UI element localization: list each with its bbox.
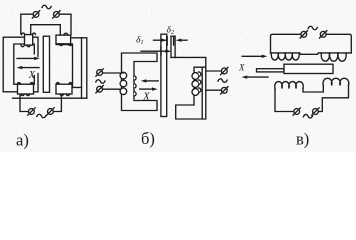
coil W7 top-left winding [271, 53, 352, 60]
arrow displacement right [17, 57, 35, 59]
arrow displacement left (fig v) [247, 76, 268, 78]
svg-text:X: X [28, 70, 36, 81]
wire bottom-left W9 to terminal [275, 89, 293, 112]
coil W4 loops [56, 83, 72, 96]
plunger rod thin section [257, 69, 285, 72]
AC source tilde bottom [37, 114, 46, 117]
coil W5 left winding rings [120, 72, 136, 96]
wire bottom bus [13, 97, 87, 99]
AC terminal G10 top-right [320, 31, 327, 38]
AC terminal G3 bottom-left [28, 108, 35, 115]
coil W3 bottom-left box [18, 84, 34, 94]
gap dimension delta1 extension line [160, 47, 162, 56]
AC terminal G4 bottom-right [47, 108, 54, 115]
gap dimension delta1 arrow [141, 50, 169, 52]
AC source tilde right [218, 79, 227, 82]
wire bottom-right W10 loop to terminal [319, 86, 349, 112]
core L2 right core outer outline [56, 38, 87, 98]
wire bottom-right drop [54, 95, 62, 112]
coil W10 bottom-right winding [323, 78, 349, 85]
svg-text:б): б) [141, 129, 155, 148]
coil W3 loops [17, 83, 33, 96]
wire left lower terminal to coil W5 [103, 88, 120, 90]
coil W1 top-left box [25, 35, 33, 46]
AC terminal G1 top-left [32, 11, 39, 18]
core L3 left bracket core [122, 53, 158, 111]
core L2 right core window outline [56, 45, 81, 88]
core L1 left C-core outer outline [3, 37, 38, 92]
AC terminal G12 bottom-right [312, 108, 319, 115]
wire top-right down to coil W8 [327, 34, 352, 53]
AC terminal G9 top-left [300, 31, 307, 38]
coil W2 loops [59, 33, 72, 45]
wire left upper terminal to coil W5 [103, 72, 124, 74]
wire series link W1-W2 [31, 25, 61, 35]
arrow displacement left (fig b) [146, 80, 158, 82]
core L2 right core spine inner edge [81, 38, 83, 98]
plunger rod thick section [284, 64, 333, 73]
wire series link W9-W10 [303, 86, 323, 93]
wire series link W7-W8 [300, 53, 319, 54]
svg-text:в): в) [296, 130, 309, 149]
wire top-left terminal to coil W1 [21, 14, 33, 34]
arrow displacement left [22, 67, 39, 69]
armature plate (fig b) [161, 34, 167, 116]
wire right lower coil W6 to terminal [206, 89, 222, 91]
arrow displacement right (fig v) [242, 55, 262, 57]
wire top-left down to coil W7 [271, 34, 301, 53]
core L1 left C-core window outline [14, 44, 35, 84]
AC terminal G11 bottom-left [293, 108, 300, 115]
arrow displacement right (fig b) [140, 88, 153, 90]
AC terminal G5 left-upper [96, 69, 103, 76]
coil W9 bottom-left winding [275, 82, 303, 89]
coil W8 top-right winding [321, 53, 346, 61]
gap dimension delta2 arrows [154, 39, 166, 41]
wire right upper coil W6 to terminal [206, 70, 222, 72]
AC source tilde top (fig v) [308, 26, 317, 29]
AC terminal G7 right-upper [221, 67, 228, 74]
wire bottom-left drop [20, 95, 28, 112]
AC source tilde bottom (fig v) [303, 114, 312, 117]
svg-text:X: X [142, 92, 150, 103]
gap dimension delta2 extension lines [167, 37, 173, 46]
AC source tilde left [96, 80, 105, 83]
core L4 right bracket core body [171, 57, 206, 119]
AC terminal G8 right-lower [221, 87, 228, 94]
armature plate [43, 36, 49, 92]
AC terminal G2 top-right [53, 11, 60, 18]
coil W6 right winding rings [192, 72, 201, 96]
coil W2 top-right box [56, 35, 71, 44]
svg-text:X: X [238, 63, 245, 73]
coil W1 loops [21, 33, 36, 47]
svg-text:а): а) [16, 131, 29, 150]
AC terminal G6 left-lower [96, 86, 103, 93]
core L4 right bracket core pole horn [171, 36, 175, 57]
coil W4 bottom-right box [56, 84, 72, 94]
AC source tilde top [42, 5, 51, 8]
wire top-right terminal to coil W2 [60, 14, 71, 35]
